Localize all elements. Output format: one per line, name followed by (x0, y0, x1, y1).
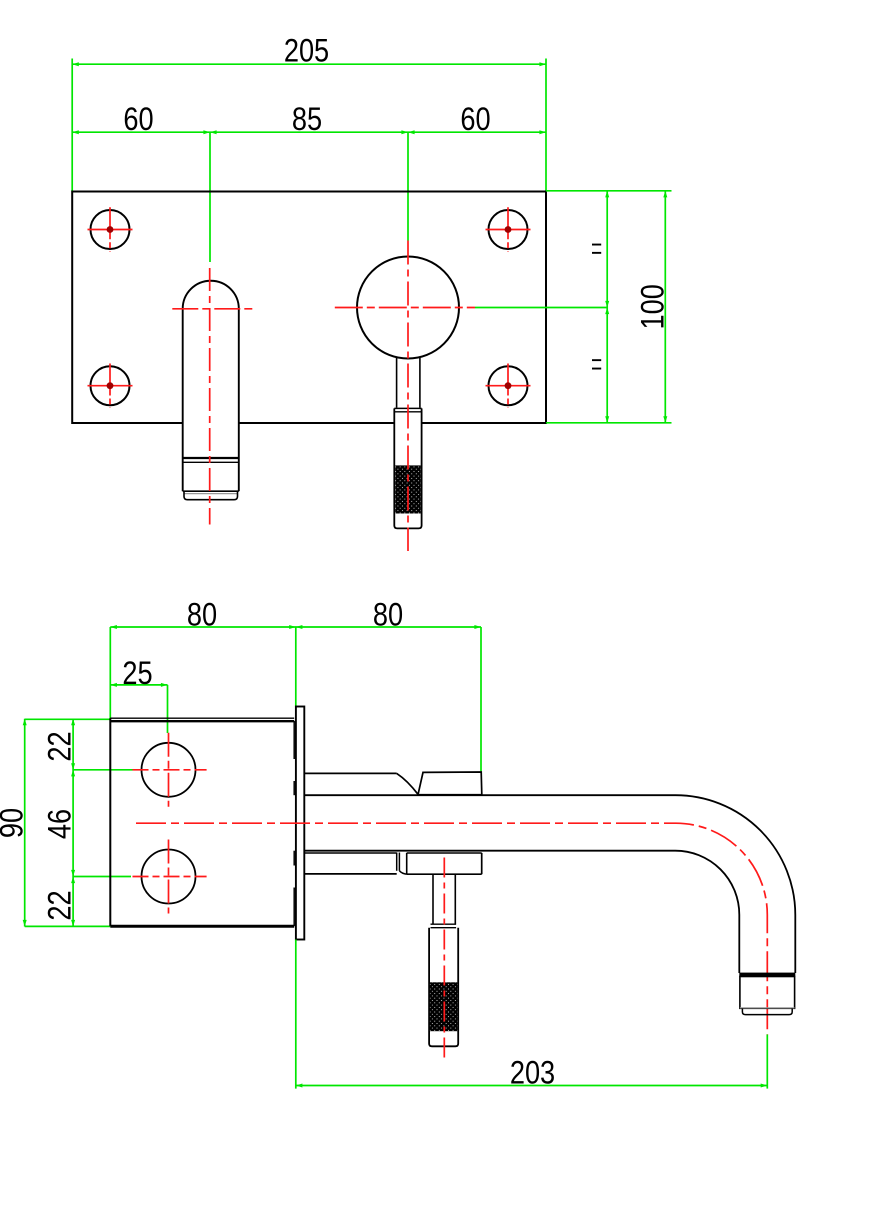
svg-text:46: 46 (43, 809, 79, 839)
svg-text:85: 85 (292, 102, 322, 138)
svg-text:22: 22 (43, 890, 79, 920)
svg-text:80: 80 (373, 598, 403, 634)
svg-text:203: 203 (510, 1055, 555, 1091)
svg-text:60: 60 (123, 102, 153, 138)
svg-text:100: 100 (636, 284, 672, 329)
svg-text:22: 22 (43, 731, 79, 761)
svg-text:60: 60 (460, 102, 490, 138)
svg-text:80: 80 (187, 598, 217, 634)
svg-text:205: 205 (284, 33, 329, 69)
svg-text:90: 90 (0, 808, 30, 838)
svg-text:25: 25 (122, 656, 152, 692)
